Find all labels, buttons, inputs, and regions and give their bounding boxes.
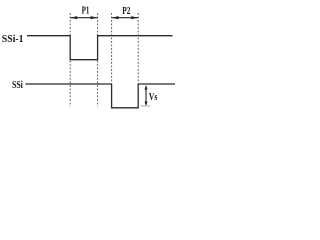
dimension arrow P2 — [112, 16, 139, 19]
wire waveform SSi — [26, 84, 176, 108]
svg-text:SSi-1: SSi-1 — [2, 34, 24, 45]
dashed guide line x=70 — [69, 13, 71, 107]
svg-text:Vs: Vs — [149, 91, 158, 103]
wire waveform SSi-1 — [27, 36, 173, 60]
svg-text:P2: P2 — [122, 5, 131, 17]
dimension arrow Vs — [145, 85, 148, 106]
reference tick at low level under Vs arrow — [141, 105, 151, 107]
dashed guide line x=138.2 — [137, 13, 139, 83]
dimension arrow P1 — [70, 16, 97, 19]
dashed guide line x=97.6 — [97, 13, 99, 107]
svg-text:SSi: SSi — [12, 80, 23, 91]
dashed guide line x=111.6 — [111, 13, 113, 83]
svg-text:P1: P1 — [82, 5, 90, 17]
